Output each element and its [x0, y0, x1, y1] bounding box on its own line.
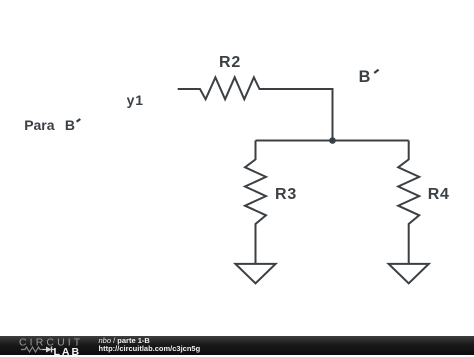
svg-text:LAB: LAB	[54, 346, 82, 357]
